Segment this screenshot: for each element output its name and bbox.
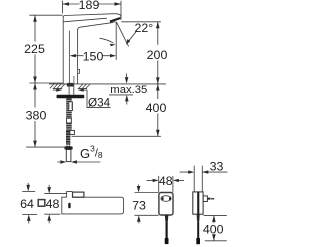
dim 189 line (63, 3, 122, 5)
dim 73 top arrow (138, 185, 140, 186)
control box front (159, 193, 173, 216)
dim 400r bottom ext (205, 240, 227, 242)
svg-text:48: 48 (159, 174, 173, 188)
svg-text:400: 400 (146, 101, 167, 115)
dim 48cb ext lines (159, 176, 173, 192)
dim 64 bottom arrow (28, 221, 30, 224)
dia34 dim line left (53, 89, 58, 91)
mounting flange dark bar (57, 95, 85, 99)
dim 200 arrows (156, 22, 160, 84)
svg-text:73: 73 (132, 198, 146, 212)
side cable stub (197, 214, 200, 222)
hose nut (65, 146, 73, 149)
max35 top arrow (126, 74, 128, 78)
big plan box (62, 197, 124, 214)
dim 48pl bottom ext (44, 213, 60, 215)
dim 400r arrows (212, 215, 216, 240)
dim 73 top ext (135, 192, 159, 194)
counter hatch right (78, 84, 90, 89)
faucet spout top edge (63, 14, 121, 18)
side box inner thick line (197, 192, 199, 214)
shared ext line at counter left (29, 82, 62, 84)
faucet body left edge (62, 16, 64, 83)
outlet face line (111, 21, 116, 24)
dia34 leader (83, 90, 111, 108)
spout inner line and body right edge (78, 23, 113, 84)
countertop top line (49, 83, 166, 85)
dim 400r line (213, 215, 215, 240)
square symbol (38, 200, 45, 207)
svg-text:200: 200 (147, 48, 168, 62)
side box verticals 33 (194, 166, 202, 192)
hose neck (67, 144, 70, 146)
front cable (166, 222, 168, 238)
faucet spout underside (63, 18, 107, 22)
svg-text:22°: 22° (135, 21, 154, 35)
ext line from outlet to 200 dim (121, 21, 161, 23)
ext line 380 bottom (26, 146, 66, 148)
dim 64 top ext (22, 190, 35, 192)
svg-text:max.35: max.35 (110, 84, 147, 96)
dim 150 arrows (70, 54, 117, 57)
sensor slot (68, 203, 70, 209)
ext line hose to 400dim (72, 135, 161, 137)
svg-text:225: 225 (24, 42, 45, 56)
dim 64 bottom ext (22, 213, 37, 215)
dim 48cb arrows (153, 179, 179, 182)
plug prongs (208, 198, 211, 200)
dim 225 line (34, 15, 36, 83)
dim 189 arrows (63, 2, 122, 6)
dim 225 ext line top (29, 14, 62, 16)
dim 73 bottom ext (135, 214, 159, 216)
max35 underline (109, 94, 133, 96)
dim 33 line (180, 171, 228, 173)
plug body (203, 196, 207, 202)
dim 400 left arrows (156, 84, 160, 136)
svg-text:64: 64 (20, 197, 34, 211)
dim 150 line (75, 55, 112, 57)
side box (193, 192, 203, 214)
right hose connector (70, 130, 75, 134)
dim 225 arrows (33, 15, 37, 83)
spray line 22deg (116, 22, 128, 46)
aerator dark bar (110, 18, 120, 21)
sensor oval (161, 196, 171, 202)
dim 33 arrows (188, 170, 208, 173)
svg-text:380: 380 (26, 108, 47, 122)
max35 bottom arrow (126, 102, 128, 105)
dim 48cb line (147, 179, 185, 181)
dim 73 bottom arrow (138, 222, 140, 223)
G3/8 tube (66, 150, 71, 162)
front cable stub (165, 215, 169, 222)
svg-text:G3/8: G3/8 (80, 143, 103, 161)
svg-text:Ø34: Ø34 (88, 96, 111, 109)
svg-text:189: 189 (79, 0, 100, 12)
hose connector middle (67, 118, 72, 123)
braided hose column (66, 98, 72, 130)
G3/8 dim arrows (57, 161, 100, 163)
side cable (197, 222, 199, 238)
tip face line (119, 16, 122, 18)
countertop bottom lines (53, 88, 87, 90)
dim 48pl top ext (44, 193, 66, 195)
angle arc arrow (100, 38, 114, 43)
left hose strip (66, 131, 70, 145)
dim 380 line (34, 83, 36, 147)
oval dots (162, 197, 164, 200)
body inner line right (73, 76, 75, 84)
plumb line from outlet (115, 22, 117, 60)
dim 380 arrows (33, 83, 37, 147)
side connector (196, 238, 200, 244)
svg-text:400: 400 (203, 223, 224, 237)
body middle line (68, 31, 70, 84)
shank lines under counter (69, 84, 74, 95)
dim 48pl top arrow (48, 185, 50, 187)
dim 48pl bottom arrow (48, 221, 50, 224)
leader from 22deg text (128, 31, 137, 42)
svg-text:150: 150 (83, 50, 104, 64)
dim 64 top arrow (27, 183, 29, 185)
dia34 arrows (56, 88, 84, 91)
svg-text:48: 48 (46, 197, 60, 211)
counter hatch left (50, 84, 65, 89)
right bump on body (78, 69, 80, 73)
dim 400r top ext (204, 214, 227, 216)
hose connector upper right (68, 102, 72, 111)
dim 189 ext lines (63, 1, 122, 20)
svg-text:33: 33 (210, 160, 224, 174)
dim 200 line (157, 22, 159, 84)
dim 400 left line (157, 84, 159, 136)
small top boxes (67, 192, 73, 198)
left hose strip stripes (66, 133, 70, 143)
front connector (165, 238, 169, 244)
base dark blob (67, 83, 74, 87)
